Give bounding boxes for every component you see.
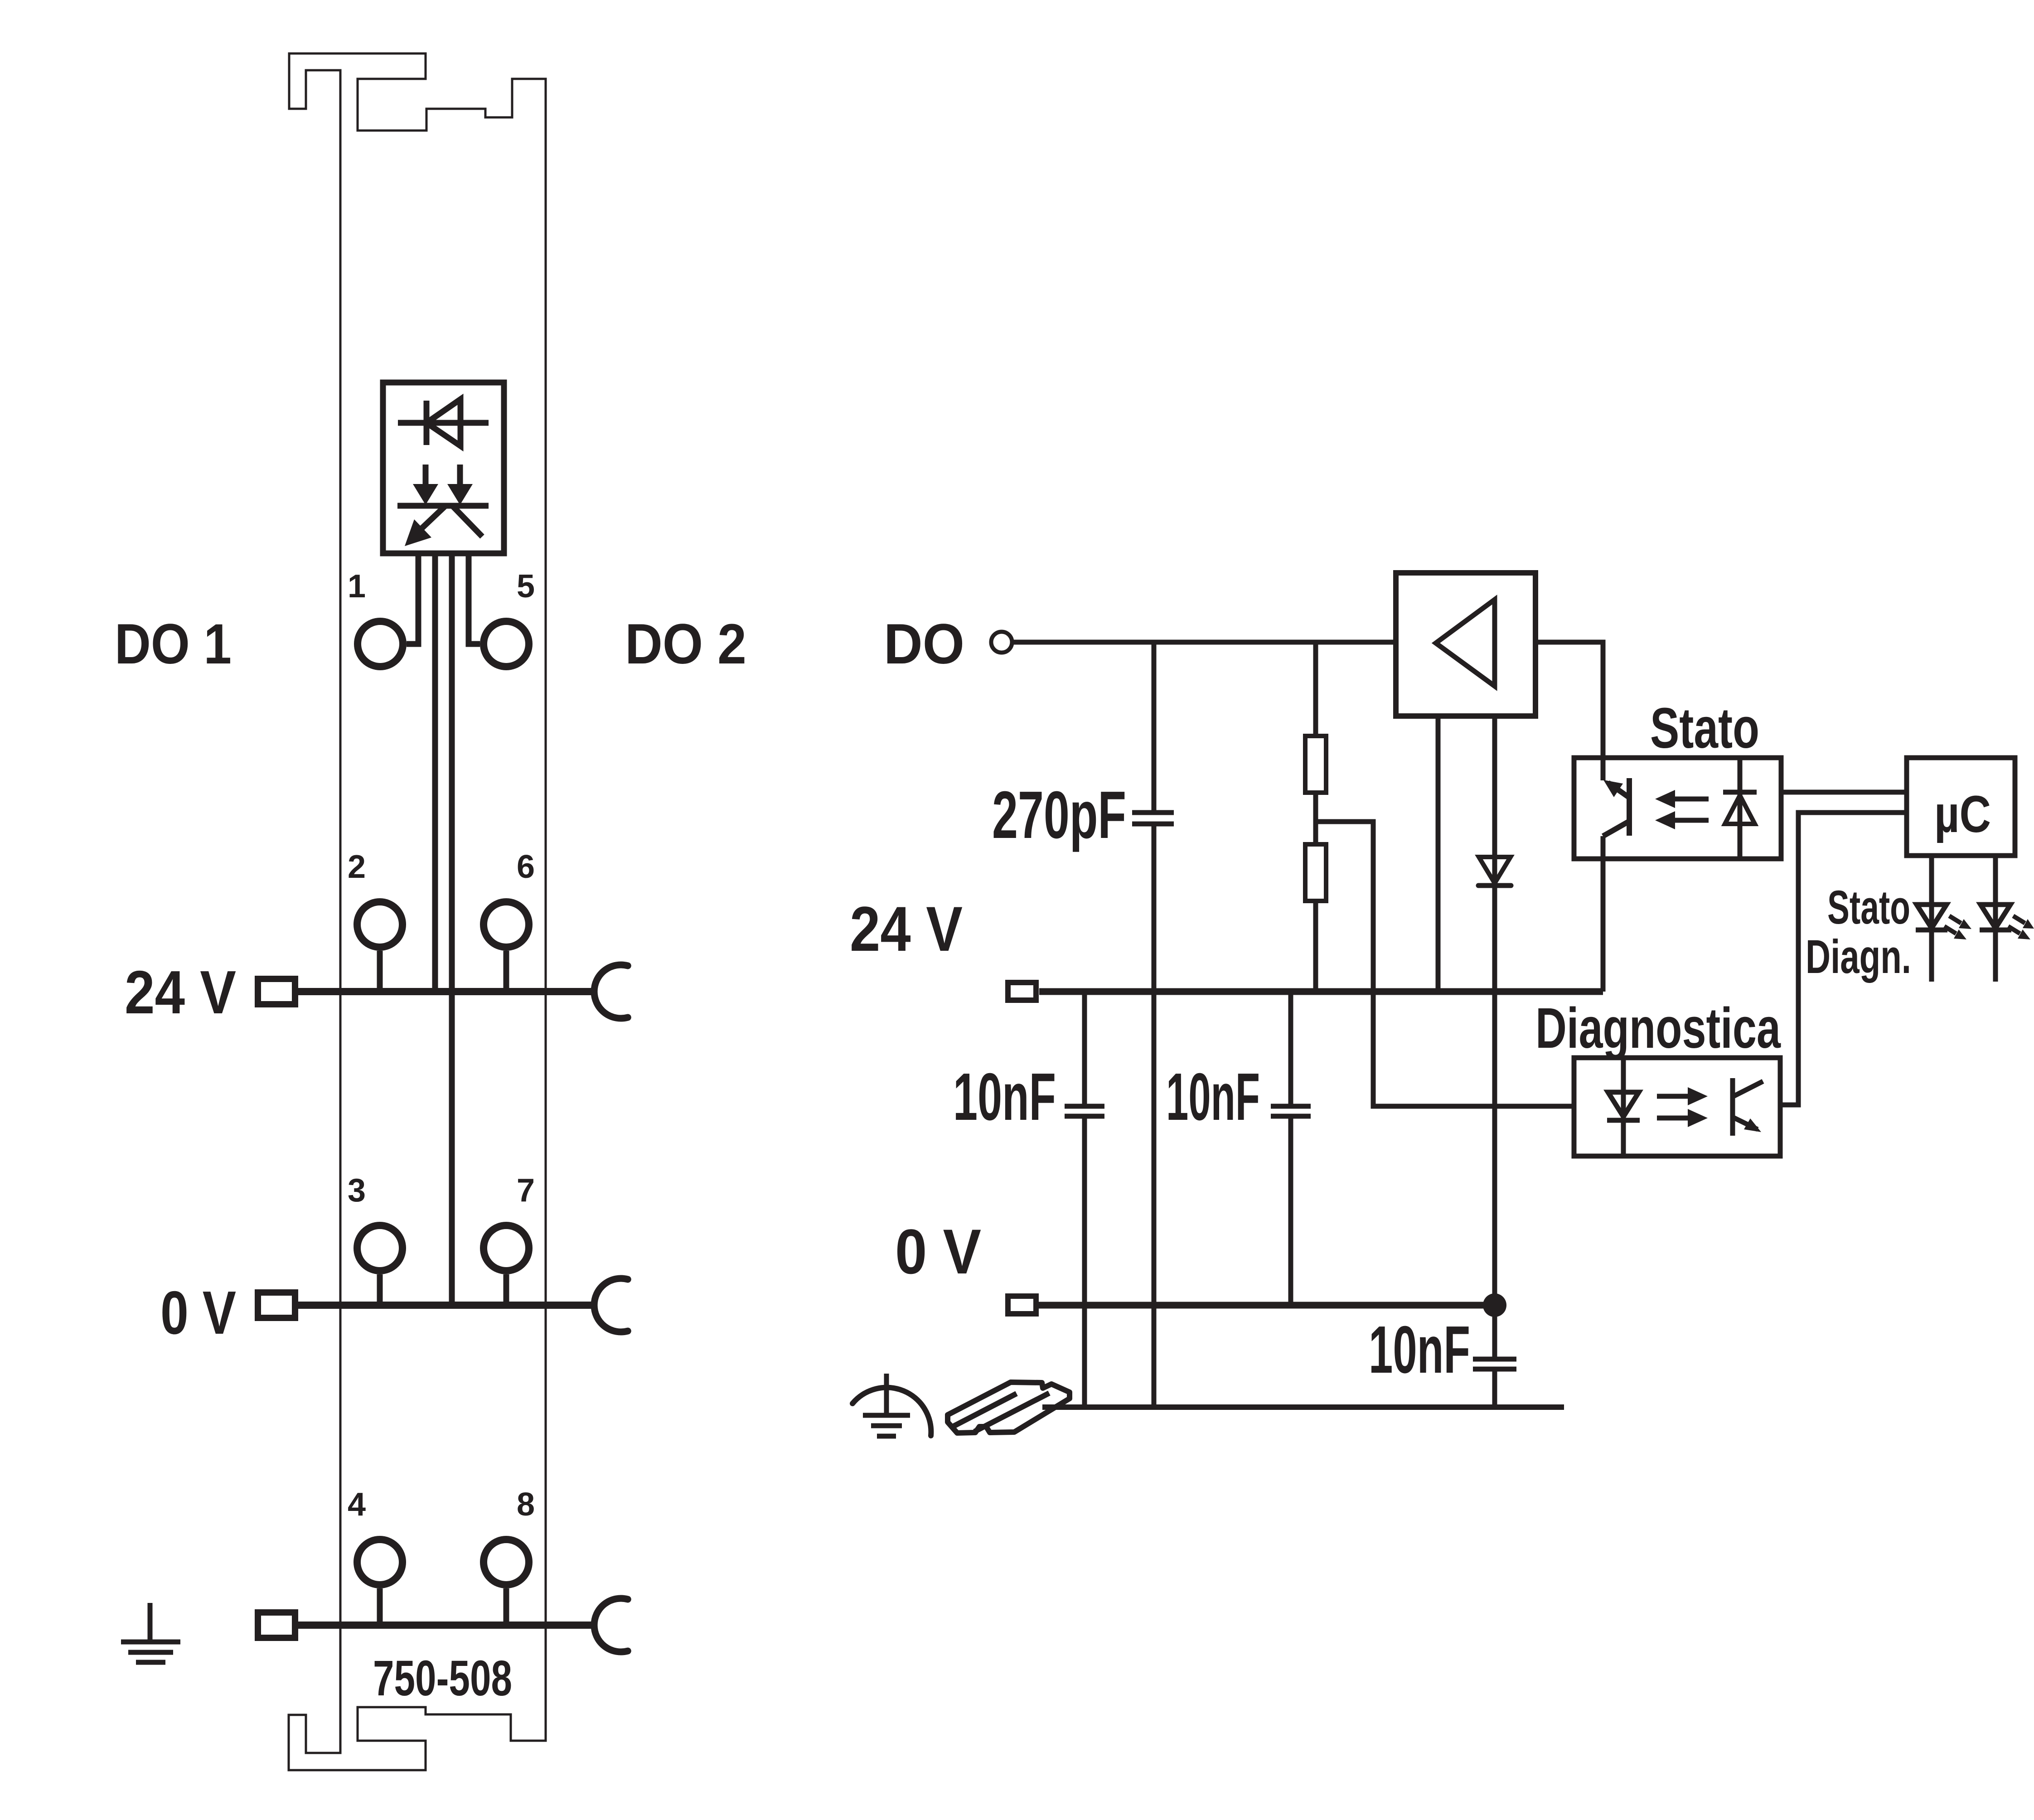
svg-text:DO 1: DO 1: [115, 613, 232, 676]
svg-text:10nF: 10nF: [1369, 1312, 1470, 1387]
svg-text:270pF: 270pF: [992, 778, 1126, 852]
svg-text:DO 2: DO 2: [625, 613, 746, 676]
svg-text:7: 7: [517, 1172, 535, 1209]
svg-text:8: 8: [517, 1486, 535, 1523]
svg-text:2: 2: [348, 849, 366, 885]
svg-text:4: 4: [348, 1486, 366, 1523]
svg-text:6: 6: [517, 849, 535, 885]
svg-text:0 V: 0 V: [160, 1278, 236, 1347]
svg-text:Diagn.: Diagn.: [1806, 930, 1911, 983]
svg-text:0 V: 0 V: [895, 1216, 981, 1287]
svg-text:Stato: Stato: [1650, 696, 1759, 760]
svg-text:Diagnostica: Diagnostica: [1535, 996, 1781, 1060]
svg-text:24 V: 24 V: [125, 958, 236, 1026]
svg-text:10nF: 10nF: [1166, 1060, 1260, 1134]
svg-text:3: 3: [348, 1172, 366, 1209]
svg-text:24 V: 24 V: [850, 893, 963, 964]
svg-text:DO: DO: [884, 613, 964, 676]
svg-text:750-508: 750-508: [373, 1651, 512, 1706]
svg-text:1: 1: [348, 568, 366, 605]
svg-text:5: 5: [517, 568, 535, 605]
svg-text:Stato: Stato: [1827, 881, 1910, 934]
svg-text:µC: µC: [1934, 785, 1991, 843]
svg-text:10nF: 10nF: [953, 1060, 1056, 1134]
